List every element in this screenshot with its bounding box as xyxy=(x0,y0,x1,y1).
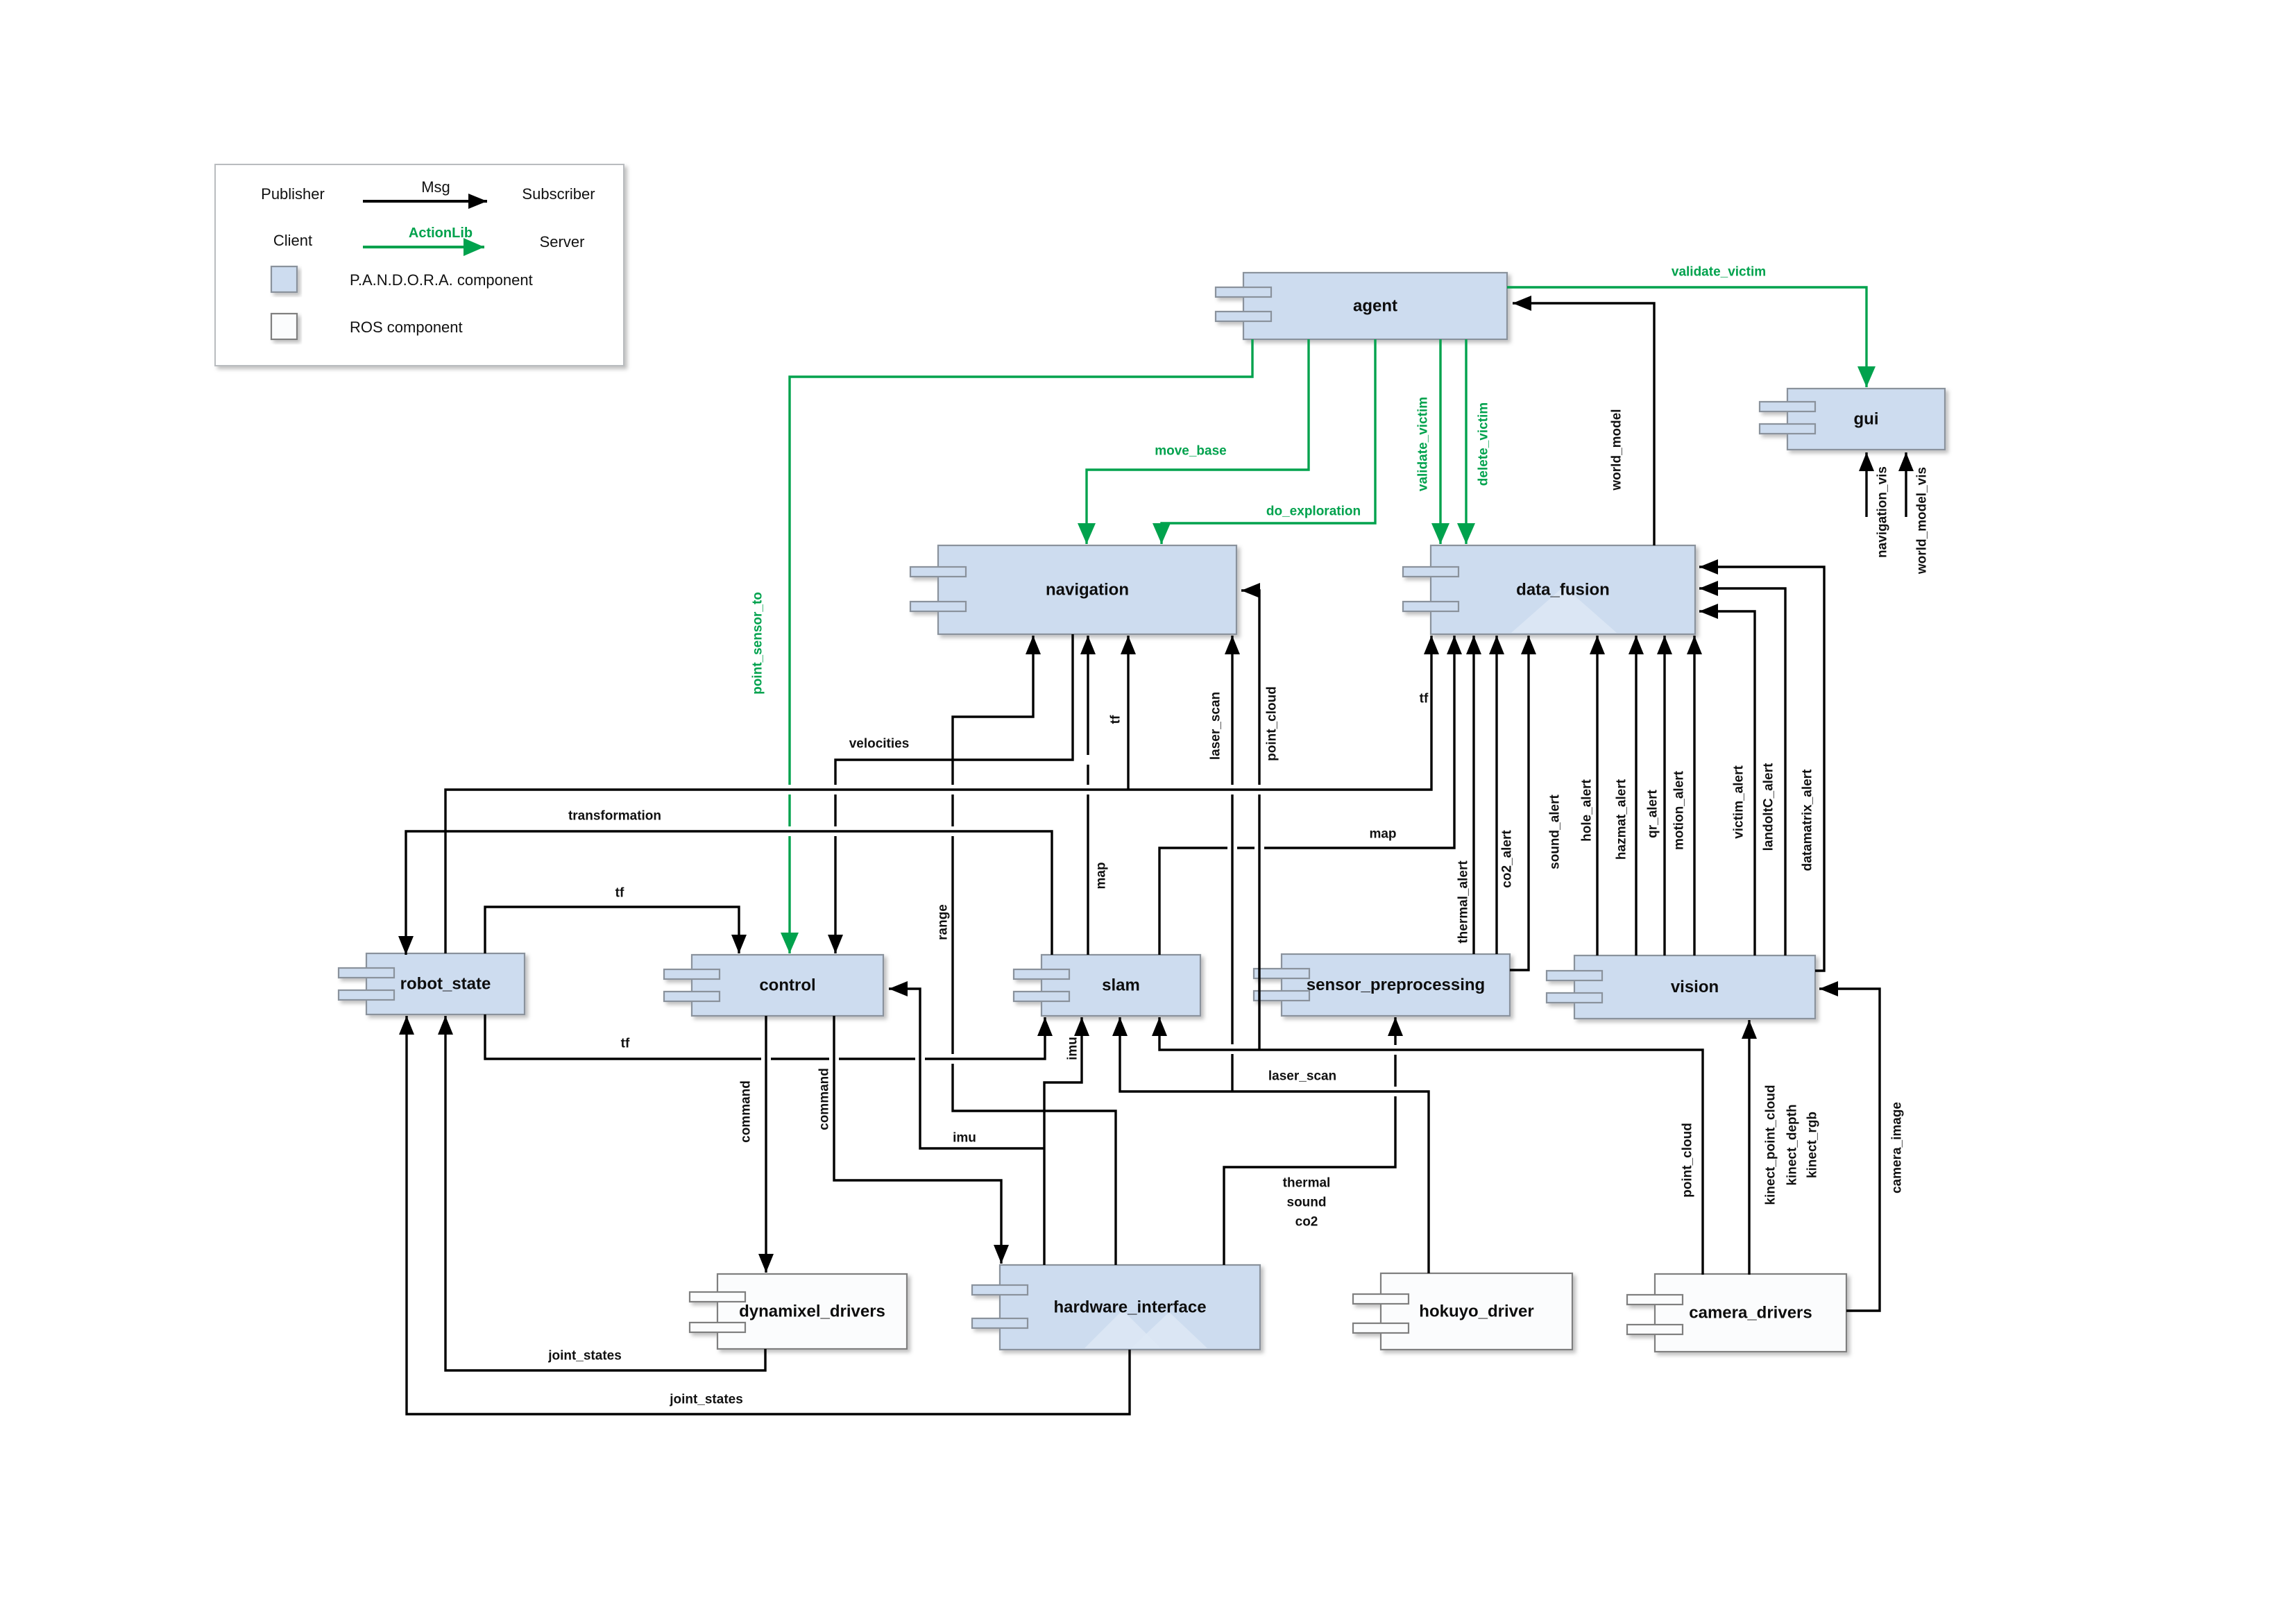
wire range (mid2) xyxy=(951,794,953,826)
wire velocities (mid) xyxy=(834,794,836,826)
svg-text:point_cloud: point_cloud xyxy=(1681,1123,1695,1198)
svg-text:datamatrix_alert: datamatrix_alert xyxy=(1801,769,1815,871)
wire move_base agent->navigation xyxy=(1087,339,1309,544)
svg-text:move_base: move_base xyxy=(1155,444,1227,459)
svg-text:tf: tf xyxy=(615,886,624,901)
svg-text:delete_victim: delete_victim xyxy=(1477,402,1491,486)
legend P.A.N.D.O.R.A. swatch xyxy=(271,266,297,292)
svg-text:do_exploration: do_exploration xyxy=(1266,504,1361,519)
wire hazmat_alert vision->data_fusion xyxy=(1635,636,1637,955)
svg-text:control: control xyxy=(759,976,815,995)
svg-text:hardware_interface: hardware_interface xyxy=(1053,1298,1206,1317)
svg-text:Msg: Msg xyxy=(421,178,450,196)
wire validate_victim agent->data_fusion xyxy=(1439,339,1441,544)
svg-text:joint_states: joint_states xyxy=(547,1349,622,1363)
svg-text:tf: tf xyxy=(621,1037,630,1051)
svg-text:co2: co2 xyxy=(1295,1215,1318,1230)
svg-text:laser_scan: laser_scan xyxy=(1268,1069,1336,1084)
component control xyxy=(664,955,883,1016)
wire navigation_vis ->gui xyxy=(1865,452,1867,517)
wire world_model_vis ->gui xyxy=(1905,452,1907,517)
svg-text:kinect_depth: kinect_depth xyxy=(1785,1104,1800,1185)
legend ROS swatch xyxy=(271,314,297,339)
component agent xyxy=(1216,273,1507,339)
svg-text:validate_victim: validate_victim xyxy=(1672,265,1766,280)
svg-text:dynamixel_drivers: dynamixel_drivers xyxy=(739,1302,885,1321)
svg-text:kinect_point_cloud: kinect_point_cloud xyxy=(1764,1085,1778,1205)
wire sound_alert sensor_preprocessing->data_fusion xyxy=(1510,636,1529,970)
wire range (arrow into navigation) xyxy=(953,636,1033,785)
component navigation xyxy=(910,545,1236,634)
svg-text:Publisher: Publisher xyxy=(261,185,325,203)
component hokuyo_driver xyxy=(1353,1273,1572,1350)
wire co2_alert sensor_preprocessing->data_fusion xyxy=(1495,636,1497,954)
svg-text:data_fusion: data_fusion xyxy=(1516,581,1610,600)
svg-text:sensor_preprocessing: sensor_preprocessing xyxy=(1307,976,1485,994)
wire point_sensor_to (between tf and transformation) xyxy=(788,794,790,826)
svg-text:gui: gui xyxy=(1854,410,1879,429)
wire point_cloud branch (arrow into navigation right) xyxy=(1241,590,1259,785)
svg-text:landoltC_alert: landoltC_alert xyxy=(1762,763,1776,851)
wire validate_victim agent->gui xyxy=(1507,287,1866,387)
wire transformation slam->robot_state xyxy=(406,831,1052,955)
wire range (mid) xyxy=(951,836,953,1054)
wire tf branch ->navigation xyxy=(1127,636,1129,790)
svg-text:validate_victim: validate_victim xyxy=(1416,397,1431,491)
svg-text:command: command xyxy=(817,1068,832,1130)
svg-text:qr_alert: qr_alert xyxy=(1646,789,1660,838)
legend frame xyxy=(215,164,624,366)
svg-text:velocities: velocities xyxy=(849,737,910,751)
component slam xyxy=(1014,955,1200,1016)
wire laser_scan branch ->navigation (lower) xyxy=(1231,1054,1233,1091)
wire tf lower (seg3) xyxy=(839,1057,915,1060)
component sensor_preprocessing xyxy=(1254,954,1510,1016)
wire tf robot_state->control xyxy=(485,907,739,953)
wire kinect_point_cloud/depth/rgb camera_drivers->vision xyxy=(1748,1020,1750,1275)
wire map slam->data_fusion (left) xyxy=(1159,848,1227,955)
wire laser_scan branch (arrow into navigation) xyxy=(1231,636,1233,785)
wire tf robot_state->slam (left) xyxy=(485,1014,761,1059)
wire imu hardware_interface->slam xyxy=(1044,1017,1082,1265)
component dynamixel_drivers xyxy=(690,1274,907,1349)
svg-text:imu: imu xyxy=(953,1131,976,1146)
component gui xyxy=(1760,389,1945,450)
wire tf robot_state->data_fusion xyxy=(445,636,1431,953)
svg-text:robot_state: robot_state xyxy=(400,975,491,994)
wire point_cloud branch up (lower) xyxy=(1258,794,1260,1050)
wire point_sensor_to agent->control (upper) xyxy=(790,339,1252,785)
wire joint_states hardware_interface->robot_state xyxy=(407,1016,1130,1414)
wire command control->dynamixel_drivers xyxy=(765,1016,767,1273)
wire landoltC_alert vision->data_fusion xyxy=(1699,588,1785,955)
component data_fusion xyxy=(1403,545,1695,634)
svg-text:map: map xyxy=(1369,827,1396,842)
wire world_model data_fusion->agent xyxy=(1513,303,1654,545)
wire map (arrow into data_fusion) xyxy=(1264,636,1454,848)
wire thermal/sound/co2 (arrow into sensor_preprocessing) xyxy=(1394,1017,1396,1087)
svg-text:hokuyo_driver: hokuyo_driver xyxy=(1419,1302,1533,1321)
component hardware_interface xyxy=(972,1265,1260,1350)
wire qr_alert vision->data_fusion xyxy=(1663,636,1665,955)
svg-text:hazmat_alert: hazmat_alert xyxy=(1615,779,1629,860)
svg-text:ROS component: ROS component xyxy=(350,318,463,336)
wire range hardware_interface->navigation (lower) xyxy=(953,1064,1116,1265)
svg-text:Server: Server xyxy=(540,233,585,250)
svg-text:world_model: world_model xyxy=(1610,409,1624,491)
svg-text:kinect_rgb: kinect_rgb xyxy=(1805,1112,1820,1178)
wire command control->hardware_interface xyxy=(834,1016,1001,1264)
svg-text:thermal_alert: thermal_alert xyxy=(1456,860,1471,944)
wire joint_states dynamixel_drivers->robot_state xyxy=(445,1016,765,1370)
svg-text:joint_states: joint_states xyxy=(669,1393,743,1407)
svg-text:agent: agent xyxy=(1353,297,1397,316)
svg-text:laser_scan: laser_scan xyxy=(1209,692,1223,760)
wire tf lower (seg2) xyxy=(771,1057,829,1060)
wire do_exploration agent->navigation xyxy=(1162,339,1375,544)
wire laser_scan branch (mid) xyxy=(1231,794,1233,1044)
svg-text:Subscriber: Subscriber xyxy=(522,185,595,203)
svg-text:vision: vision xyxy=(1671,978,1719,996)
wire datamatrix_alert vision->data_fusion xyxy=(1699,567,1824,971)
wire delete_victim agent->data_fusion xyxy=(1465,339,1467,544)
component robot_state xyxy=(339,953,525,1014)
svg-text:motion_alert: motion_alert xyxy=(1672,770,1687,850)
svg-text:navigation: navigation xyxy=(1046,581,1129,600)
svg-text:ActionLib: ActionLib xyxy=(409,226,473,241)
wire tf lower (arrow into slam) xyxy=(925,1017,1045,1059)
svg-text:hole_alert: hole_alert xyxy=(1580,779,1595,841)
svg-text:victim_alert: victim_alert xyxy=(1732,765,1746,839)
svg-text:navigation_vis: navigation_vis xyxy=(1876,466,1890,558)
svg-text:world_model_vis: world_model_vis xyxy=(1915,467,1930,575)
wire point_cloud camera_drivers->slam (right) xyxy=(1159,1017,1703,1275)
wire map slam->navigation (lower) xyxy=(1087,794,1089,955)
svg-text:co2_alert: co2_alert xyxy=(1500,830,1515,888)
wire hole_alert vision->data_fusion xyxy=(1596,636,1598,955)
component vision xyxy=(1547,955,1815,1019)
svg-text:point_sensor_to: point_sensor_to xyxy=(751,592,765,695)
wire point_sensor_to (arrow into control top) xyxy=(788,836,790,953)
wire imu branch ->control xyxy=(889,989,1044,1148)
svg-text:range: range xyxy=(936,904,951,940)
svg-text:imu: imu xyxy=(1066,1037,1080,1060)
svg-text:command: command xyxy=(739,1080,754,1143)
svg-text:thermal: thermal xyxy=(1283,1176,1331,1191)
component camera_drivers xyxy=(1627,1274,1846,1352)
wire thermal_alert sensor_preprocessing->data_fusion xyxy=(1472,636,1474,954)
wire velocities navigation->control (upper) xyxy=(835,634,1073,785)
wire map (seg2) xyxy=(1237,847,1255,849)
svg-text:sound: sound xyxy=(1287,1196,1327,1210)
svg-text:sound_alert: sound_alert xyxy=(1548,794,1563,869)
svg-text:tf: tf xyxy=(1420,692,1429,706)
wire thermal/sound/co2 hardware_interface->sensor_preprocessing (lower) xyxy=(1224,1096,1395,1265)
svg-text:P.A.N.D.O.R.A. component: P.A.N.D.O.R.A. component xyxy=(350,271,533,289)
svg-text:transformation: transformation xyxy=(568,809,661,824)
svg-text:camera_drivers: camera_drivers xyxy=(1689,1304,1812,1323)
svg-text:slam: slam xyxy=(1102,976,1140,995)
svg-text:Client: Client xyxy=(273,232,312,249)
svg-text:point_cloud: point_cloud xyxy=(1265,686,1279,761)
wire laser_scan hokuyo_driver->slam xyxy=(1120,1017,1429,1273)
wire motion_alert vision->data_fusion xyxy=(1693,636,1695,955)
wire map (arrow into navigation) xyxy=(1087,636,1089,755)
wire velocities (arrow into control) xyxy=(834,836,836,953)
svg-text:camera_image: camera_image xyxy=(1890,1102,1905,1193)
wire victim_alert vision->data_fusion xyxy=(1699,611,1755,955)
wire camera_image camera_drivers->vision xyxy=(1819,989,1880,1311)
wire map (mid) xyxy=(1087,765,1089,785)
svg-text:tf: tf xyxy=(1109,715,1123,724)
svg-text:map: map xyxy=(1094,862,1109,889)
